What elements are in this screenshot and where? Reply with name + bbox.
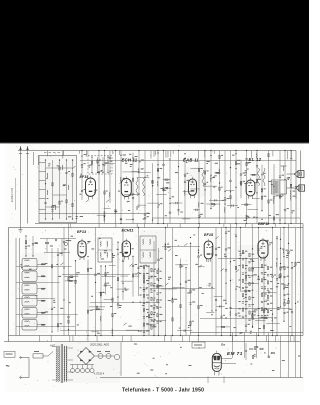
- svg-text:EF15: EF15: [204, 233, 214, 237]
- svg-text:El-Bild 1704: El-Bild 1704: [10, 187, 14, 202]
- svg-text:ECH11: ECH11: [122, 229, 134, 233]
- svg-text:EBF11: EBF11: [258, 222, 269, 226]
- svg-text:ANT: ANT: [50, 344, 56, 348]
- svg-text:EM 71: EM 71: [227, 351, 243, 356]
- svg-text:ECH 11: ECH 11: [122, 158, 138, 163]
- svg-text:Telefunken - T 5000 - Jahr 195: Telefunken - T 5000 - Jahr 1950: [122, 388, 204, 394]
- svg-text:EF13: EF13: [77, 230, 87, 234]
- svg-text:Go: Go: [221, 343, 225, 347]
- svg-text:EL 12: EL 12: [249, 157, 262, 162]
- svg-text:~: ~: [6, 364, 10, 371]
